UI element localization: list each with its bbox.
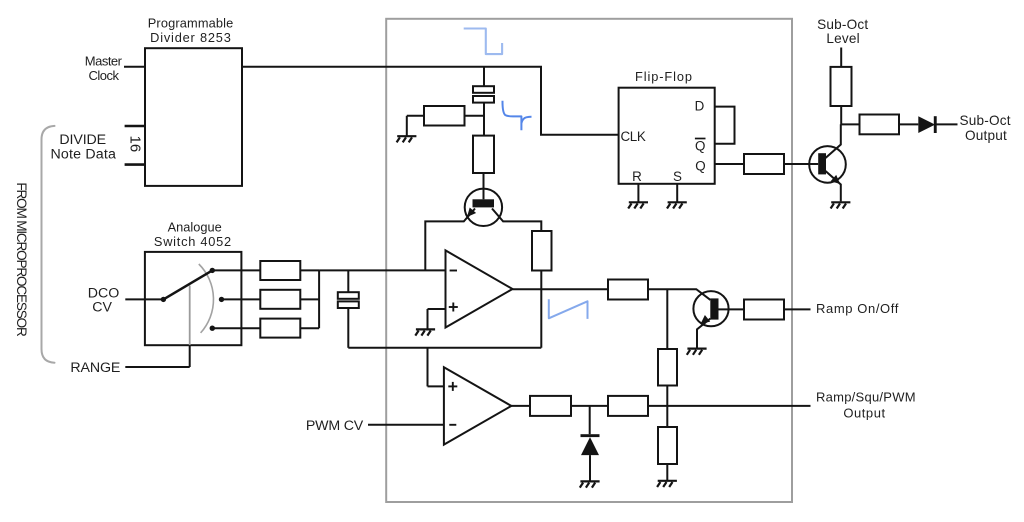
svg-text:Level: Level bbox=[826, 31, 860, 46]
svg-text:Sub-Oct: Sub-Oct bbox=[959, 113, 1010, 128]
svg-text:16: 16 bbox=[126, 136, 143, 153]
svg-text:Programmable: Programmable bbox=[148, 15, 234, 30]
svg-text:Q: Q bbox=[695, 138, 705, 153]
svg-text:Master: Master bbox=[85, 54, 123, 69]
svg-text:RANGE: RANGE bbox=[70, 360, 120, 376]
svg-text:Output: Output bbox=[843, 406, 885, 421]
svg-text:Flip-Flop: Flip-Flop bbox=[635, 69, 693, 84]
svg-text:Clock: Clock bbox=[88, 68, 119, 83]
svg-text:Q: Q bbox=[695, 159, 705, 174]
svg-text:DIVIDE: DIVIDE bbox=[59, 132, 106, 148]
svg-text:D: D bbox=[695, 98, 705, 113]
svg-text:Divider 8253: Divider 8253 bbox=[150, 30, 231, 45]
svg-text:Switch 4052: Switch 4052 bbox=[154, 234, 232, 249]
svg-text:R: R bbox=[632, 169, 642, 184]
svg-text:Ramp On/Off: Ramp On/Off bbox=[816, 301, 899, 316]
svg-text:CLK: CLK bbox=[621, 129, 646, 144]
svg-text:Ramp/Squ/PWM: Ramp/Squ/PWM bbox=[816, 390, 916, 405]
svg-text:CV: CV bbox=[92, 299, 112, 315]
svg-text:PWM CV: PWM CV bbox=[306, 418, 364, 434]
svg-text:Sub-Oct: Sub-Oct bbox=[817, 17, 868, 32]
svg-text:S: S bbox=[673, 169, 682, 184]
svg-text:Note Data: Note Data bbox=[50, 147, 116, 163]
svg-text:FROM MICROPROCESSOR: FROM MICROPROCESSOR bbox=[14, 182, 29, 337]
svg-text:Output: Output bbox=[965, 128, 1007, 143]
svg-text:Analogue: Analogue bbox=[168, 219, 222, 234]
